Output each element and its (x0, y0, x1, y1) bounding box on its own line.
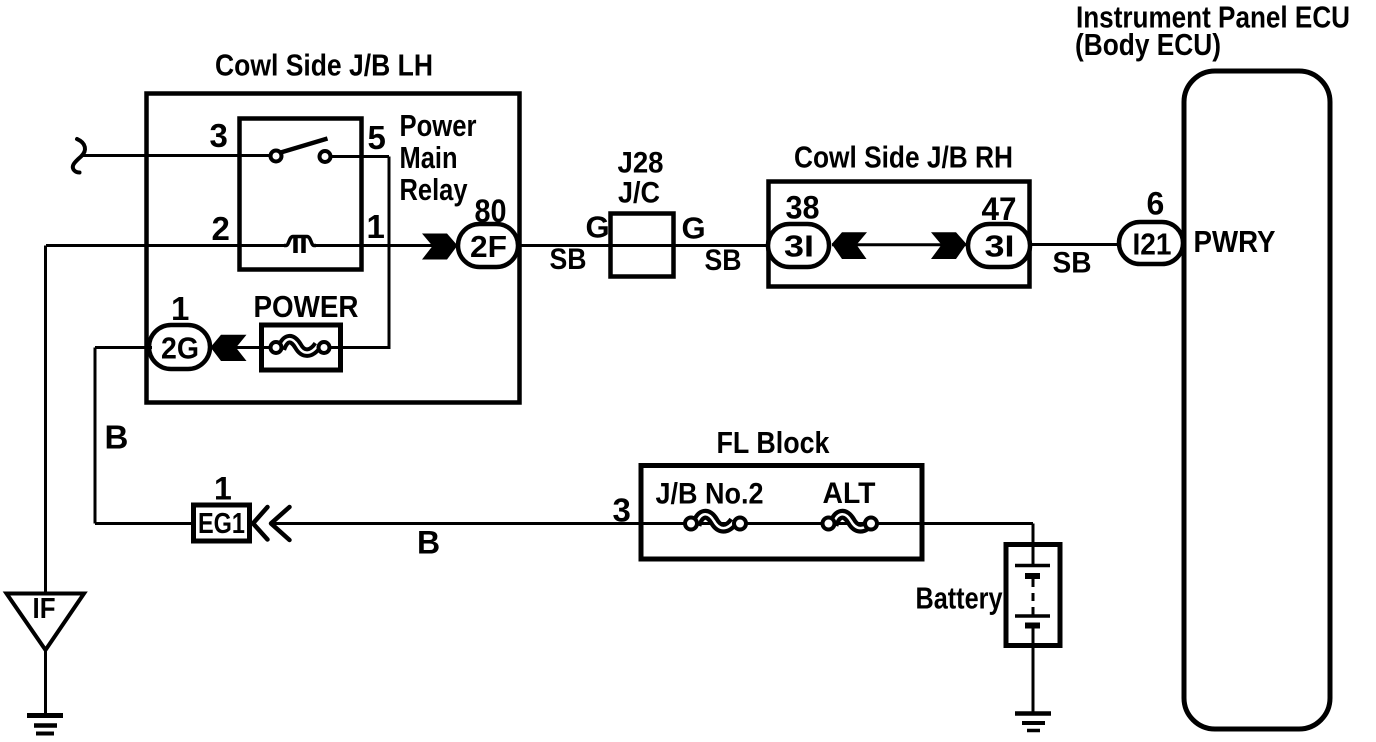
battery bottom lead (1032, 625, 1035, 713)
arrow pointing left in RH box (832, 232, 867, 259)
svg-text:2: 2 (212, 210, 230, 247)
junction block Cowl Side J/B RH box (769, 182, 1030, 287)
wire FL to battery corner (1032, 524, 1035, 546)
svg-text:5: 5 (368, 119, 386, 156)
wire pin1 to connector 2F (316, 244, 459, 247)
svg-text:B: B (105, 419, 129, 456)
battery BT1 box (1006, 545, 1060, 646)
arrow into 2F (422, 234, 458, 260)
arrow pointing right in RH box (931, 232, 967, 259)
svg-text:6: 6 (1147, 186, 1165, 222)
svg-text:Power: Power (400, 108, 477, 143)
svg-text:ALT: ALT (823, 477, 876, 510)
svg-text:3I: 3I (784, 229, 814, 264)
wire fuse to pin5 drop (329, 346, 391, 349)
svg-text:Cowl Side J/B LH: Cowl Side J/B LH (215, 48, 433, 83)
junction connector J28 box (611, 214, 674, 277)
connector oval 3I left (768, 224, 829, 267)
wire EG1 to FL block (272, 522, 642, 525)
svg-text:POWER: POWER (254, 289, 359, 324)
svg-text:G: G (682, 211, 706, 246)
fuse POWER terminal right (319, 342, 330, 353)
svg-text:I21: I21 (1133, 227, 1172, 262)
relay switch blade (279, 139, 328, 154)
svg-text:2F: 2F (470, 229, 507, 264)
svg-text:Cowl Side J/B RH: Cowl Side J/B RH (794, 140, 1013, 175)
ground symbol battery bar1 (1015, 711, 1051, 716)
svg-text:EG1: EG1 (198, 508, 245, 540)
wire IF to ground (44, 650, 47, 716)
relay coil bump (284, 237, 316, 246)
wire through J28 (609, 244, 768, 247)
wire inside FL block (642, 522, 1033, 525)
ground triangle IF (7, 594, 85, 651)
svg-text:Relay: Relay (400, 172, 469, 207)
ECU U1 body rounded box (1184, 71, 1330, 729)
connector EG1 box (194, 505, 250, 541)
ground symbol left bar1 (27, 713, 63, 718)
battery plate short bottom (1025, 623, 1040, 629)
svg-text:PWRY: PWRY (1194, 224, 1276, 259)
svg-text:G: G (586, 210, 610, 245)
svg-text:SB: SB (705, 244, 742, 277)
wire 2F to J28 (520, 244, 609, 247)
arrow into 2G pointing left (211, 335, 247, 361)
wire pin5 vertical down to fuse (388, 157, 391, 348)
fusible link ALT squiggle (833, 514, 871, 528)
svg-text:1: 1 (367, 208, 385, 245)
battery plate short top (1025, 573, 1040, 579)
wire vertical x95 (94, 348, 97, 524)
relay switch contact left (271, 151, 282, 162)
wire pin3 horizontal (81, 154, 271, 157)
svg-text:B: B (417, 525, 440, 561)
svg-text:38: 38 (786, 190, 820, 226)
svg-text:SB: SB (1053, 247, 1092, 280)
svg-text:J/B No.2: J/B No.2 (656, 478, 764, 511)
svg-text:J28: J28 (618, 147, 664, 180)
svg-text:FL Block: FL Block (717, 425, 831, 460)
svg-text:1: 1 (171, 290, 189, 327)
fusible link J/B No.2 squiggle (696, 514, 734, 528)
chevron arrow 2 at EG1 (271, 507, 290, 540)
wire between 3I ovals (832, 243, 966, 246)
relay coil tick 1 (293, 238, 298, 253)
svg-text:1: 1 (214, 471, 232, 507)
battery plate long top (1015, 564, 1050, 568)
fuse POWER terminal left (271, 342, 282, 353)
svg-text:IF: IF (33, 593, 56, 625)
fusible link ALT terminal right (865, 518, 877, 530)
connector oval I21 (1119, 222, 1183, 264)
battery top lead (1032, 545, 1035, 565)
relay coil tick 2 (301, 238, 306, 253)
wire break squiggle at pin 3 lead (73, 139, 85, 173)
relay switch contact right (320, 151, 331, 162)
svg-text:J/C: J/C (618, 177, 660, 210)
wire from arrow to fuse (236, 346, 276, 349)
svg-text:3I: 3I (985, 229, 1015, 264)
wire pin2 horizontal (46, 244, 285, 247)
fusible link block FL box (641, 466, 922, 560)
battery plate long bottom (1015, 614, 1050, 618)
svg-text:2G: 2G (161, 331, 199, 366)
svg-text:SB: SB (550, 243, 587, 276)
ground symbol left bar2 (34, 723, 57, 728)
connector oval 2G (149, 325, 210, 369)
fuse POWER box (262, 325, 341, 370)
wire horizontal to EG1 (95, 522, 192, 525)
connector oval 2F (458, 224, 518, 267)
wire pin5 from contact to corner (331, 155, 390, 158)
wire 2G left stub (95, 346, 152, 349)
fusible link J/B No.2 terminal left (685, 518, 697, 530)
battery dashed link (1032, 579, 1035, 615)
svg-text:3: 3 (613, 492, 631, 529)
wire 3I to I21 (1031, 243, 1120, 246)
fuse POWER squiggle (281, 339, 318, 352)
relay K1 Power Main Relay box (240, 119, 362, 270)
fusible link J/B No.2 terminal right (734, 518, 746, 530)
svg-text:3: 3 (210, 117, 228, 154)
ground symbol battery bar3 (1027, 729, 1040, 733)
ground symbol left bar3 (36, 732, 54, 736)
svg-text:Main: Main (400, 140, 458, 175)
svg-text:Battery: Battery (916, 581, 1004, 616)
chevron arrow 1 at EG1 (253, 507, 268, 540)
fusible link ALT terminal left (823, 518, 835, 530)
wire vertical x46 to ground (44, 246, 47, 595)
junction block Cowl Side J/B LH box (147, 94, 520, 403)
connector oval 3I right (968, 224, 1030, 267)
ground symbol battery bar2 (1022, 721, 1045, 725)
svg-text:(Body ECU): (Body ECU) (1075, 27, 1221, 62)
svg-text:47: 47 (982, 191, 1017, 227)
